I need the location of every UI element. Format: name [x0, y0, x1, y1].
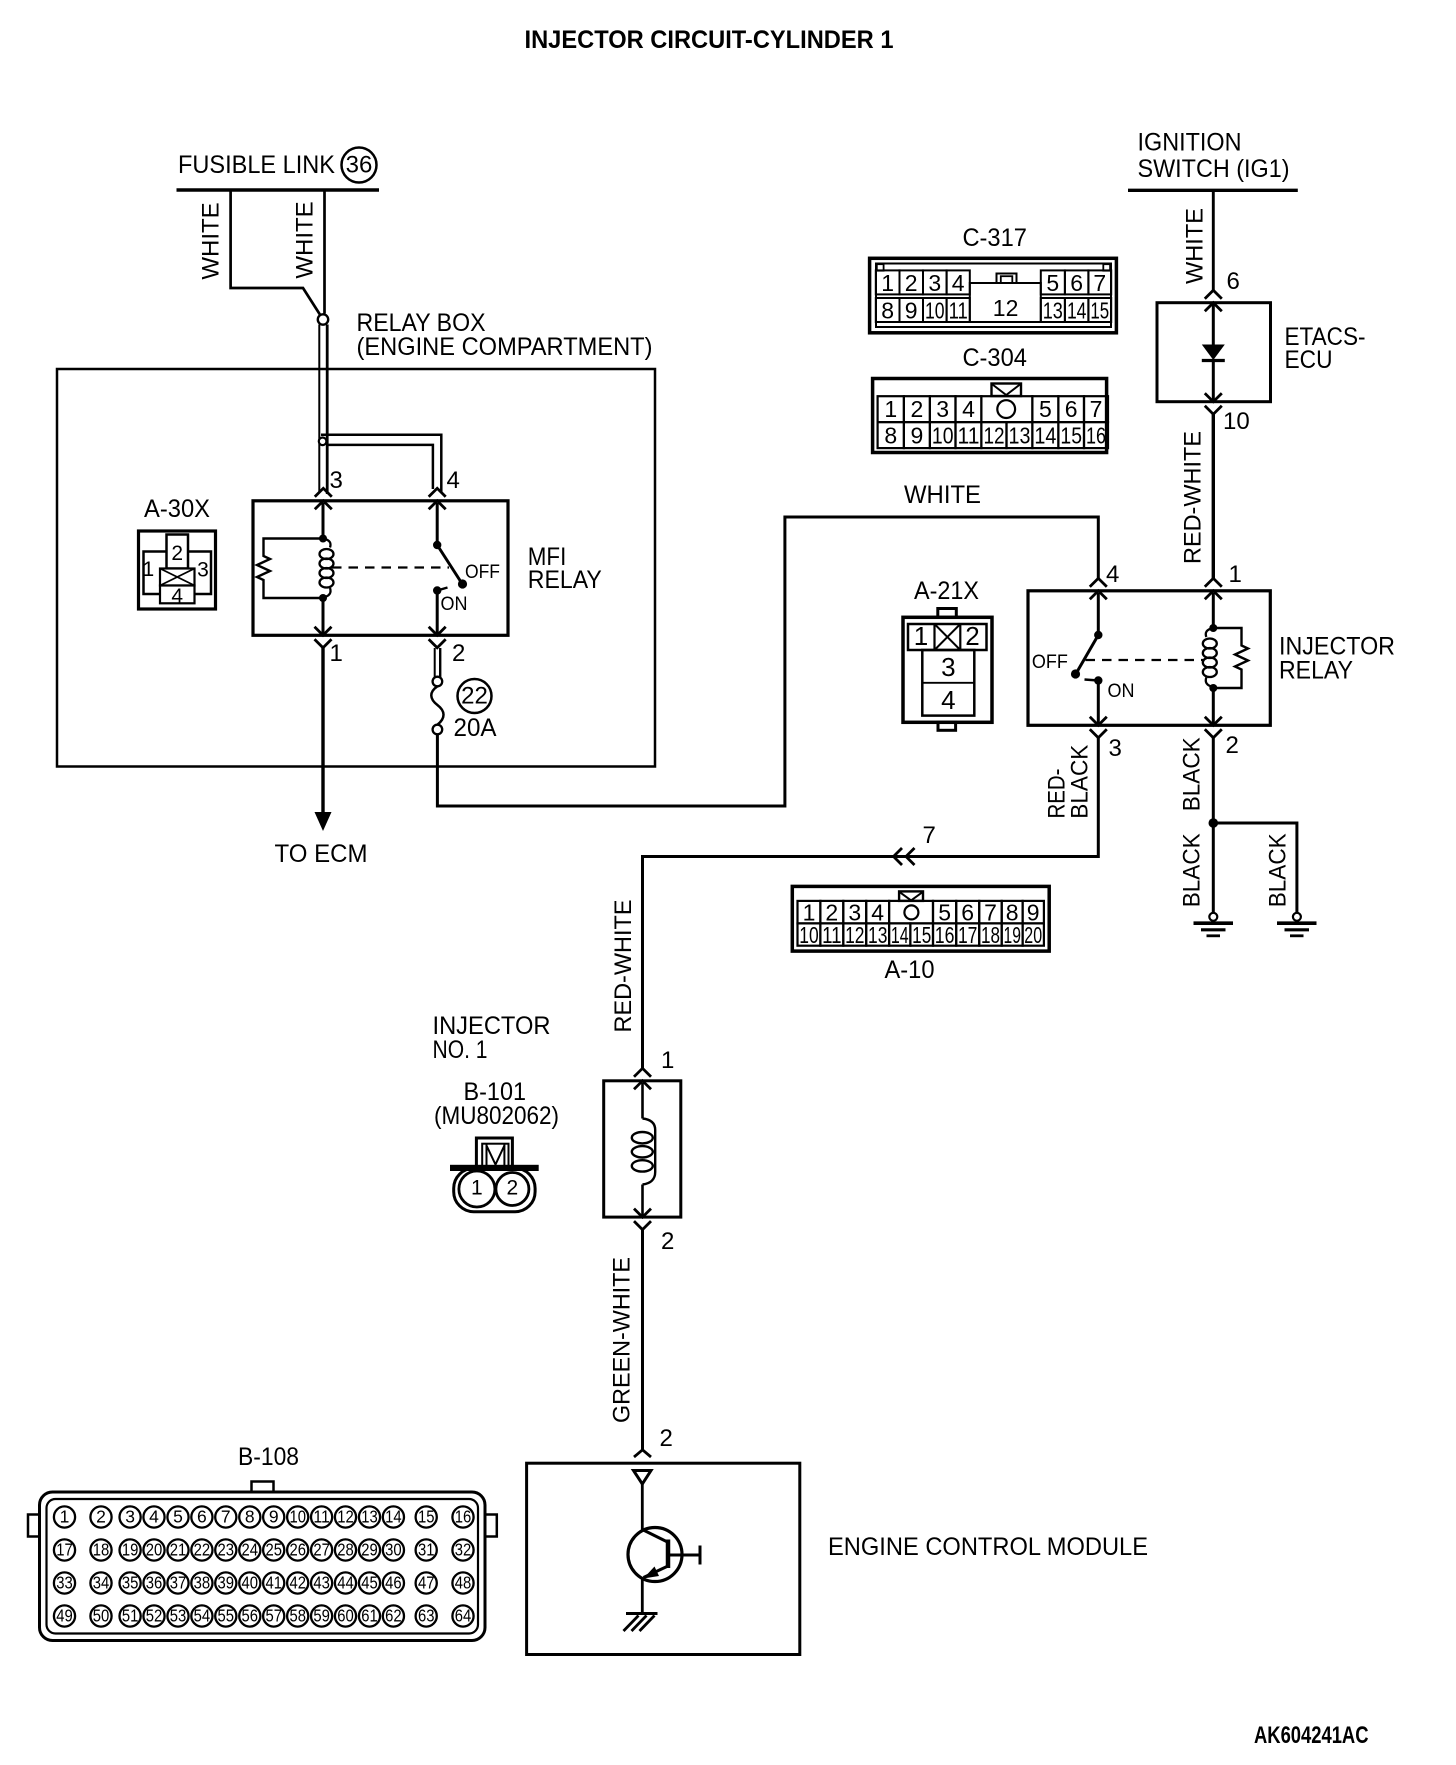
svg-text:56: 56: [242, 1606, 259, 1626]
svg-text:19: 19: [1004, 922, 1021, 948]
svg-text:11: 11: [949, 297, 968, 323]
svg-text:36: 36: [146, 1573, 163, 1593]
svg-text:12: 12: [337, 1507, 354, 1527]
svg-text:47: 47: [418, 1573, 435, 1593]
svg-text:7: 7: [923, 822, 936, 849]
svg-text:WHITE: WHITE: [1182, 208, 1209, 284]
junction connector circle: [318, 314, 328, 324]
svg-text:4: 4: [1106, 561, 1119, 588]
svg-text:C-304: C-304: [962, 344, 1027, 372]
ECM pin 2 arrow: [634, 1450, 651, 1457]
injector pin 1 arrow: [634, 1068, 651, 1077]
svg-text:15: 15: [1090, 297, 1109, 323]
svg-text:7: 7: [221, 1507, 231, 1527]
svg-text:45: 45: [361, 1573, 378, 1593]
svg-text:6: 6: [1227, 268, 1240, 295]
wire white right from fusible link: [323, 192, 326, 314]
svg-text:4: 4: [941, 685, 955, 715]
svg-text:1: 1: [881, 270, 894, 296]
svg-text:11: 11: [822, 922, 841, 948]
svg-text:TO ECM: TO ECM: [275, 840, 368, 868]
svg-text:32: 32: [455, 1540, 472, 1560]
svg-text:11: 11: [313, 1507, 330, 1527]
svg-text:1: 1: [142, 558, 154, 581]
svg-text:12: 12: [845, 922, 864, 948]
svg-text:7: 7: [1093, 270, 1106, 296]
svg-text:13: 13: [1009, 422, 1031, 448]
double wire pin2 to fuse: [434, 648, 436, 677]
svg-text:37: 37: [170, 1573, 187, 1593]
svg-text:33: 33: [56, 1573, 73, 1593]
svg-text:9: 9: [905, 297, 918, 323]
svg-text:60: 60: [337, 1606, 354, 1626]
svg-text:7: 7: [1090, 396, 1103, 422]
svg-text:ENGINE CONTROL MODULE: ENGINE CONTROL MODULE: [828, 1533, 1148, 1561]
svg-text:20: 20: [1024, 922, 1042, 948]
svg-text:2: 2: [1226, 732, 1239, 759]
svg-text:4: 4: [962, 396, 975, 422]
svg-text:61: 61: [361, 1606, 378, 1626]
injector relay pin 4 arrow: [1090, 578, 1107, 587]
svg-text:49: 49: [56, 1606, 73, 1626]
svg-text:6: 6: [1065, 396, 1078, 422]
junction circle at branch: [319, 438, 327, 446]
svg-text:3: 3: [330, 467, 343, 494]
svg-text:(MU802062): (MU802062): [434, 1102, 559, 1130]
wire ETACS to injector relay pin 1 (RED-WHITE): [1212, 414, 1215, 579]
svg-text:3: 3: [936, 396, 949, 422]
svg-text:14: 14: [891, 922, 909, 948]
svg-text:2: 2: [965, 621, 979, 651]
svg-text:1: 1: [330, 640, 343, 667]
injector coil: [641, 1083, 644, 1119]
svg-text:10: 10: [1223, 408, 1250, 435]
injector no.1 component box: [604, 1081, 681, 1217]
svg-text:15: 15: [1060, 422, 1082, 448]
svg-text:35: 35: [122, 1573, 139, 1593]
svg-text:6: 6: [197, 1507, 207, 1527]
svg-text:41: 41: [265, 1573, 282, 1593]
svg-text:17: 17: [56, 1540, 73, 1560]
svg-text:13: 13: [868, 922, 887, 948]
injector relay switch: [1097, 593, 1100, 635]
injector relay resistor (parallel): [1213, 628, 1248, 688]
relay box (engine compartment): [57, 369, 655, 767]
svg-text:WHITE: WHITE: [198, 202, 225, 279]
svg-text:ECU: ECU: [1285, 346, 1333, 374]
svg-text:1: 1: [661, 1047, 674, 1074]
svg-text:2: 2: [661, 1228, 674, 1255]
svg-text:44: 44: [337, 1573, 354, 1593]
wire pin3 down-left (wire 7): [643, 738, 1099, 1068]
svg-text:25: 25: [265, 1540, 282, 1560]
svg-text:29: 29: [361, 1540, 378, 1560]
dashed link coil-switch: [332, 566, 449, 568]
svg-text:22: 22: [461, 683, 488, 710]
svg-text:12: 12: [983, 422, 1004, 448]
MFI relay pin 1 arrow: [315, 639, 332, 648]
svg-text:48: 48: [455, 1573, 472, 1593]
wire white left from fusible link: [231, 192, 322, 318]
svg-text:OFF: OFF: [1032, 652, 1068, 673]
connector B-101 symbol: [476, 1138, 512, 1167]
svg-text:54: 54: [194, 1606, 211, 1626]
svg-text:A-21X: A-21X: [914, 577, 979, 605]
svg-text:5: 5: [1046, 270, 1059, 296]
ground symbol right: [1293, 913, 1301, 921]
svg-text:A-30X: A-30X: [144, 495, 210, 523]
svg-text:8: 8: [884, 422, 897, 448]
wire ignition to ETACS: [1212, 192, 1215, 291]
svg-text:AK604241AC: AK604241AC: [1254, 1722, 1369, 1749]
svg-text:28: 28: [337, 1540, 354, 1560]
svg-text:30: 30: [385, 1540, 402, 1560]
svg-text:15: 15: [912, 922, 931, 948]
svg-text:3: 3: [941, 652, 955, 682]
svg-text:38: 38: [194, 1573, 211, 1593]
svg-text:13: 13: [1043, 297, 1063, 323]
svg-text:WHITE: WHITE: [292, 201, 319, 278]
svg-text:8: 8: [881, 297, 894, 323]
MFI relay box: [253, 501, 508, 636]
svg-text:A-10: A-10: [885, 956, 935, 984]
svg-text:64: 64: [455, 1606, 472, 1626]
injector relay pin 3 arrow: [1090, 729, 1107, 738]
svg-text:23: 23: [218, 1540, 235, 1560]
injector relay box: [1028, 591, 1270, 726]
wire pin2 to ground: [1212, 738, 1215, 913]
svg-text:36: 36: [346, 152, 373, 179]
branch double wire to MFI relay pin 4: [321, 435, 441, 493]
wire GREEN-WHITE injector to ECM: [641, 1230, 644, 1450]
svg-text:12: 12: [993, 295, 1019, 321]
svg-text:20: 20: [146, 1540, 163, 1560]
fuse 22 20A: [433, 677, 443, 687]
svg-text:RED-WHITE: RED-WHITE: [610, 900, 637, 1033]
chassis ground: [626, 1612, 658, 1615]
svg-text:BLACK: BLACK: [1179, 833, 1206, 907]
svg-text:10: 10: [289, 1507, 306, 1527]
double wire to MFI relay pin 3: [318, 325, 320, 493]
svg-text:3: 3: [197, 559, 209, 582]
ETACS pin 10 arrow: [1205, 406, 1222, 415]
svg-text:22: 22: [194, 1540, 211, 1560]
injector relay coil: [1212, 593, 1215, 628]
svg-text:57: 57: [265, 1606, 282, 1626]
svg-text:27: 27: [313, 1540, 330, 1560]
MFI relay pin 3 arrow: [315, 488, 332, 497]
svg-text:13: 13: [361, 1507, 378, 1527]
svg-text:26: 26: [289, 1540, 306, 1560]
svg-text:46: 46: [385, 1573, 402, 1593]
svg-text:IGNITION: IGNITION: [1138, 129, 1242, 157]
svg-text:1: 1: [884, 396, 897, 422]
svg-text:39: 39: [218, 1573, 235, 1593]
MFI relay switch: [436, 503, 439, 545]
svg-text:16: 16: [935, 922, 955, 948]
wire pin1 to ECM arrow: [321, 648, 324, 813]
svg-text:8: 8: [245, 1507, 255, 1527]
svg-text:14: 14: [385, 1507, 402, 1527]
svg-text:21: 21: [170, 1540, 187, 1560]
svg-text:1: 1: [60, 1507, 70, 1527]
svg-text:2: 2: [96, 1507, 106, 1527]
MFI relay pin 4 arrow: [429, 488, 446, 497]
svg-text:10: 10: [932, 422, 954, 448]
svg-text:31: 31: [418, 1540, 435, 1560]
ETACS pin 6 arrow: [1205, 290, 1222, 299]
svg-text:RELAY: RELAY: [528, 566, 602, 594]
connector A-10: [792, 886, 1049, 951]
svg-text:10: 10: [925, 297, 945, 323]
svg-text:59: 59: [313, 1606, 330, 1626]
svg-text:SWITCH (IG1): SWITCH (IG1): [1138, 155, 1290, 183]
svg-text:14: 14: [1067, 297, 1087, 323]
svg-text:9: 9: [269, 1507, 279, 1527]
svg-text:53: 53: [170, 1606, 187, 1626]
svg-text:62: 62: [385, 1606, 402, 1626]
svg-text:B-108: B-108: [238, 1443, 299, 1471]
svg-text:42: 42: [289, 1573, 306, 1593]
svg-text:34: 34: [93, 1573, 110, 1593]
svg-text:ON: ON: [441, 594, 468, 615]
svg-text:3: 3: [125, 1507, 135, 1527]
svg-text:16: 16: [455, 1507, 472, 1527]
svg-text:2: 2: [507, 1177, 519, 1200]
svg-text:24: 24: [242, 1540, 259, 1560]
svg-text:52: 52: [146, 1606, 163, 1626]
svg-text:C-317: C-317: [962, 224, 1027, 252]
svg-text:4: 4: [447, 467, 460, 494]
input triangle: [634, 1471, 652, 1485]
svg-text:RELAY: RELAY: [1279, 657, 1353, 685]
svg-text:4: 4: [952, 270, 965, 296]
svg-text:5: 5: [173, 1507, 183, 1527]
svg-text:(ENGINE COMPARTMENT): (ENGINE COMPARTMENT): [357, 333, 653, 361]
MFI relay pin 2 arrow: [429, 639, 446, 648]
svg-text:INJECTOR CIRCUIT-CYLINDER 1: INJECTOR CIRCUIT-CYLINDER 1: [525, 26, 894, 54]
svg-text:15: 15: [418, 1507, 435, 1527]
ETACS diode: [1212, 304, 1215, 345]
svg-text:BLACK: BLACK: [1179, 737, 1206, 811]
svg-text:FUSIBLE LINK: FUSIBLE LINK: [178, 151, 335, 179]
svg-text:BLACK: BLACK: [1265, 833, 1292, 907]
svg-text:2: 2: [452, 640, 465, 667]
svg-text:16: 16: [1086, 422, 1106, 448]
svg-text:10: 10: [799, 922, 818, 948]
svg-text:2: 2: [660, 1425, 673, 1452]
transistor Q (ECM driver): [641, 1484, 644, 1530]
svg-text:ON: ON: [1108, 681, 1135, 702]
ground symbol left: [1209, 913, 1217, 921]
ETACS-ECU box: [1157, 303, 1271, 402]
svg-text:40: 40: [242, 1573, 259, 1593]
svg-text:4: 4: [149, 1507, 159, 1527]
chevrons pin 7 (left): [894, 848, 903, 865]
svg-text:3: 3: [928, 270, 941, 296]
svg-text:17: 17: [958, 922, 978, 948]
svg-text:2: 2: [905, 270, 918, 296]
fusible link bus bar: [177, 188, 380, 192]
wire fuse down-right-up (to WHITE wire): [437, 517, 1098, 806]
svg-text:5: 5: [1039, 396, 1052, 422]
svg-text:1: 1: [1229, 561, 1242, 588]
MFI relay resistor (parallel): [257, 539, 323, 599]
svg-text:58: 58: [289, 1606, 306, 1626]
fusible link circled 36: [342, 148, 377, 183]
svg-text:NO. 1: NO. 1: [433, 1036, 488, 1064]
injector relay pin 2 arrow: [1205, 729, 1222, 738]
svg-text:2: 2: [171, 542, 183, 565]
injector relay pin 1 arrow: [1205, 578, 1222, 587]
svg-text:6: 6: [1070, 270, 1083, 296]
svg-text:51: 51: [122, 1606, 139, 1626]
svg-text:3: 3: [1109, 735, 1122, 762]
svg-text:14: 14: [1034, 422, 1056, 448]
MFI relay coil: [322, 503, 325, 538]
svg-text:18: 18: [93, 1540, 110, 1560]
svg-text:63: 63: [418, 1606, 435, 1626]
svg-text:19: 19: [122, 1540, 139, 1560]
svg-text:1: 1: [471, 1177, 483, 1200]
svg-text:43: 43: [313, 1573, 330, 1593]
svg-text:OFF: OFF: [465, 562, 500, 583]
svg-text:9: 9: [911, 422, 924, 448]
svg-text:2: 2: [911, 396, 924, 422]
engine control module box: [527, 1463, 800, 1654]
svg-text:18: 18: [981, 922, 1000, 948]
svg-text:BLACK: BLACK: [1067, 745, 1094, 819]
svg-text:WHITE: WHITE: [904, 481, 981, 509]
svg-text:4: 4: [171, 585, 183, 608]
svg-text:GREEN-WHITE: GREEN-WHITE: [609, 1257, 636, 1423]
svg-text:11: 11: [958, 422, 980, 448]
svg-text:1: 1: [914, 621, 928, 651]
svg-text:RED-WHITE: RED-WHITE: [1180, 431, 1207, 564]
svg-text:20A: 20A: [454, 714, 497, 742]
svg-text:55: 55: [218, 1606, 235, 1626]
svg-text:50: 50: [93, 1606, 110, 1626]
injector pin 2 arrow: [634, 1221, 651, 1230]
